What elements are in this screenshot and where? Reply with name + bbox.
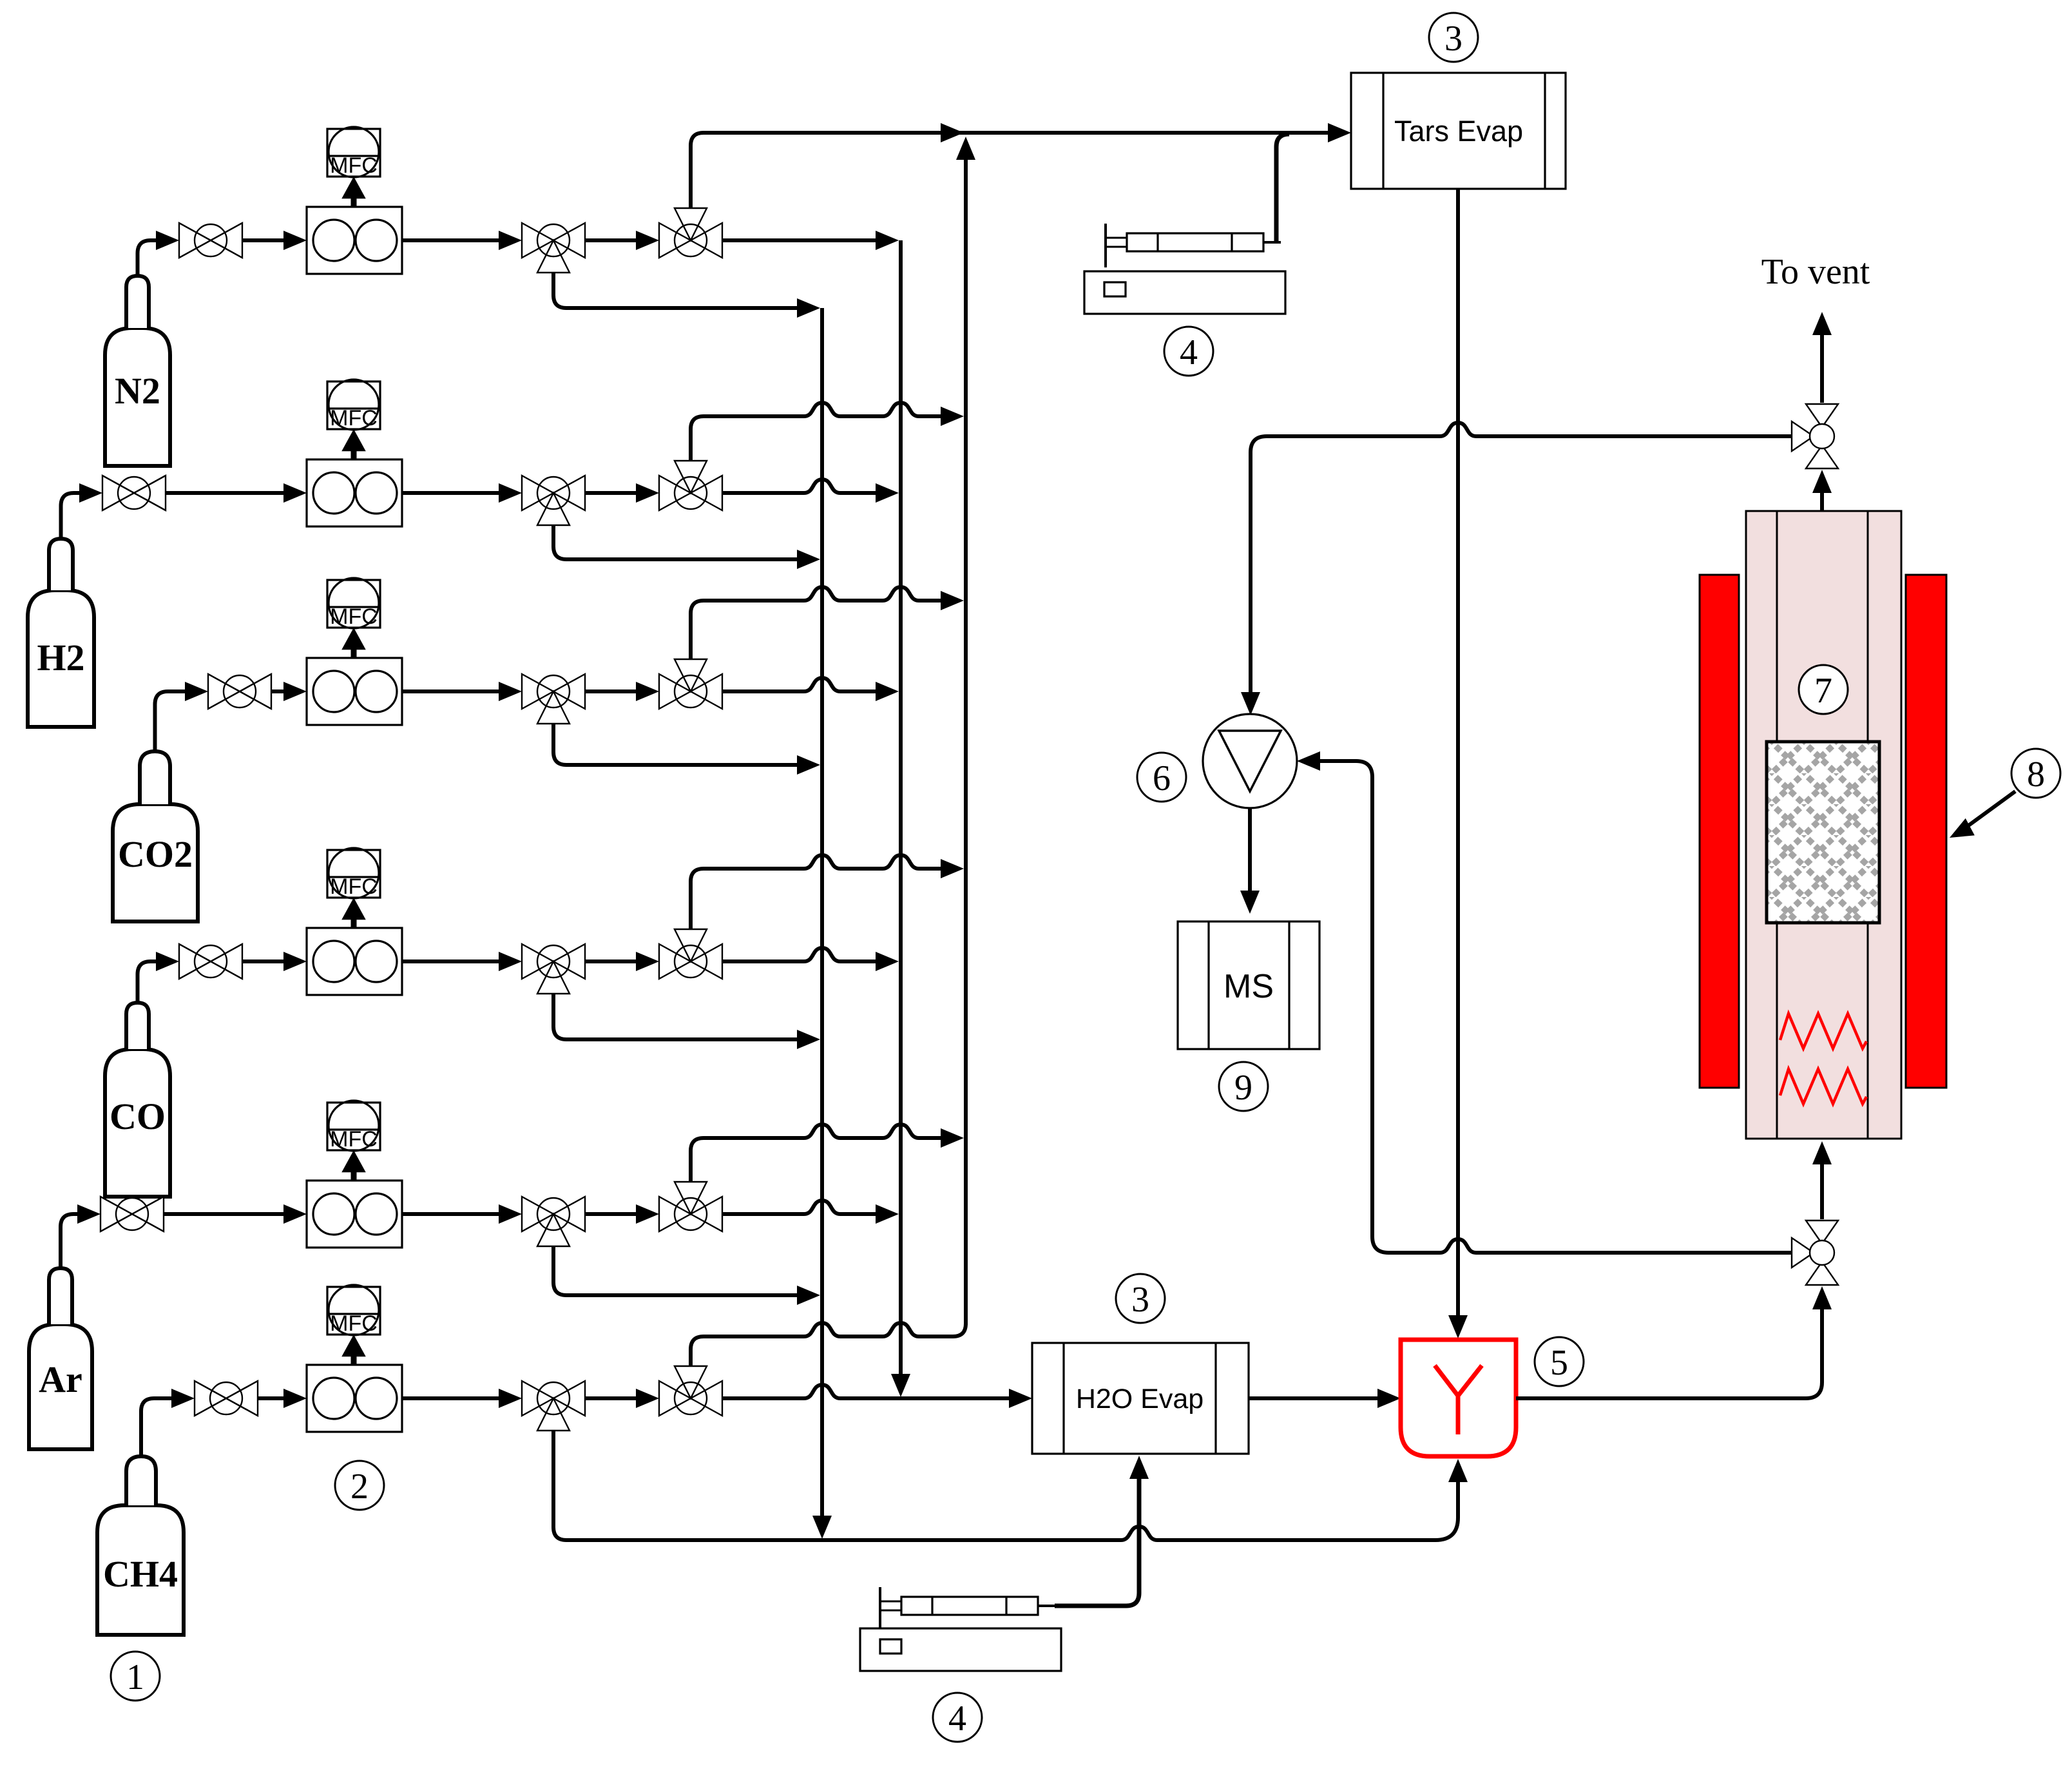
svg-text:3: 3 — [1444, 19, 1463, 59]
svg-text:Tars Evap: Tars Evap — [1394, 115, 1523, 148]
svg-text:4: 4 — [1180, 333, 1198, 372]
svg-text:H2O Evap: H2O Evap — [1076, 1384, 1204, 1414]
svg-text:9: 9 — [1234, 1068, 1252, 1108]
svg-text:MFC: MFC — [330, 153, 378, 178]
svg-text:MFC: MFC — [330, 604, 378, 629]
svg-text:6: 6 — [1153, 758, 1171, 798]
svg-text:H2: H2 — [37, 637, 84, 679]
svg-text:7: 7 — [1814, 671, 1832, 711]
svg-text:To vent: To vent — [1761, 252, 1870, 292]
svg-text:CH4: CH4 — [103, 1553, 178, 1595]
svg-text:MFC: MFC — [330, 406, 378, 430]
svg-text:N2: N2 — [115, 370, 160, 412]
svg-text:MFC: MFC — [330, 1127, 378, 1152]
svg-text:MS: MS — [1223, 968, 1274, 1005]
svg-text:4: 4 — [948, 1699, 966, 1739]
svg-text:8: 8 — [2027, 755, 2045, 795]
svg-text:CO2: CO2 — [118, 833, 193, 875]
svg-text:MFC: MFC — [330, 1311, 378, 1336]
svg-text:1: 1 — [126, 1657, 144, 1697]
svg-text:CO: CO — [110, 1095, 166, 1137]
svg-text:3: 3 — [1131, 1280, 1149, 1320]
svg-text:2: 2 — [350, 1467, 369, 1507]
svg-text:MFC: MFC — [330, 874, 378, 899]
svg-text:5: 5 — [1550, 1343, 1568, 1383]
svg-text:Ar: Ar — [39, 1358, 82, 1400]
